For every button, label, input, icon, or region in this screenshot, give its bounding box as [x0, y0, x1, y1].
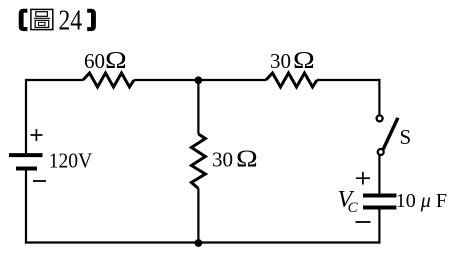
battery minus sign — [33, 180, 46, 182]
svg-text:120V: 120V — [49, 149, 92, 173]
wire left lower — [25, 171, 27, 244]
wire bottom — [25, 241, 381, 243]
svg-text:S: S — [400, 125, 412, 149]
wire switch to capacitor — [378, 155, 380, 194]
wire top-middle segment — [134, 79, 266, 81]
resistor R3 30Ω (middle) — [191, 134, 205, 189]
svg-text:Ω: Ω — [236, 145, 258, 172]
capacitor C1 bottom plate — [363, 206, 396, 210]
svg-text:VC: VC — [338, 187, 359, 216]
switch S top contact — [377, 115, 383, 121]
wire left upper — [25, 79, 27, 153]
wire capacitor to bottom — [378, 210, 380, 244]
battery B1 minus plate — [16, 167, 37, 171]
wire right upper — [378, 79, 380, 115]
svg-text:30: 30 — [270, 49, 291, 73]
resistor R2 30Ω (top) — [266, 73, 317, 87]
svg-text:Ω: Ω — [293, 46, 315, 73]
resistor R1 60Ω — [83, 73, 134, 87]
switch S arm — [383, 118, 398, 150]
wire middle branch upper — [197, 80, 199, 134]
svg-text:30: 30 — [212, 148, 233, 172]
capacitor C1 top plate — [363, 194, 396, 198]
switch S bottom contact — [378, 149, 384, 155]
title bracket right 】 — [87, 9, 96, 31]
node A (top junction) — [195, 76, 203, 84]
wire top-right segment — [317, 79, 381, 81]
battery B1 plus plate — [9, 153, 43, 157]
svg-text:10 μ F: 10 μ F — [396, 190, 447, 212]
svg-text:Ω: Ω — [105, 46, 127, 73]
wire top-left segment — [26, 79, 83, 81]
wire middle branch lower — [197, 189, 199, 243]
title glyph 圖 (Figure) — [31, 9, 53, 29]
battery plus sign — [30, 129, 42, 141]
capacitor minus sign — [356, 221, 371, 223]
capacitor plus sign — [356, 172, 370, 185]
svg-text:60: 60 — [84, 49, 105, 73]
title bracket left 【 — [19, 9, 28, 31]
svg-text:24: 24 — [59, 5, 83, 37]
node B (bottom junction) — [195, 239, 203, 247]
